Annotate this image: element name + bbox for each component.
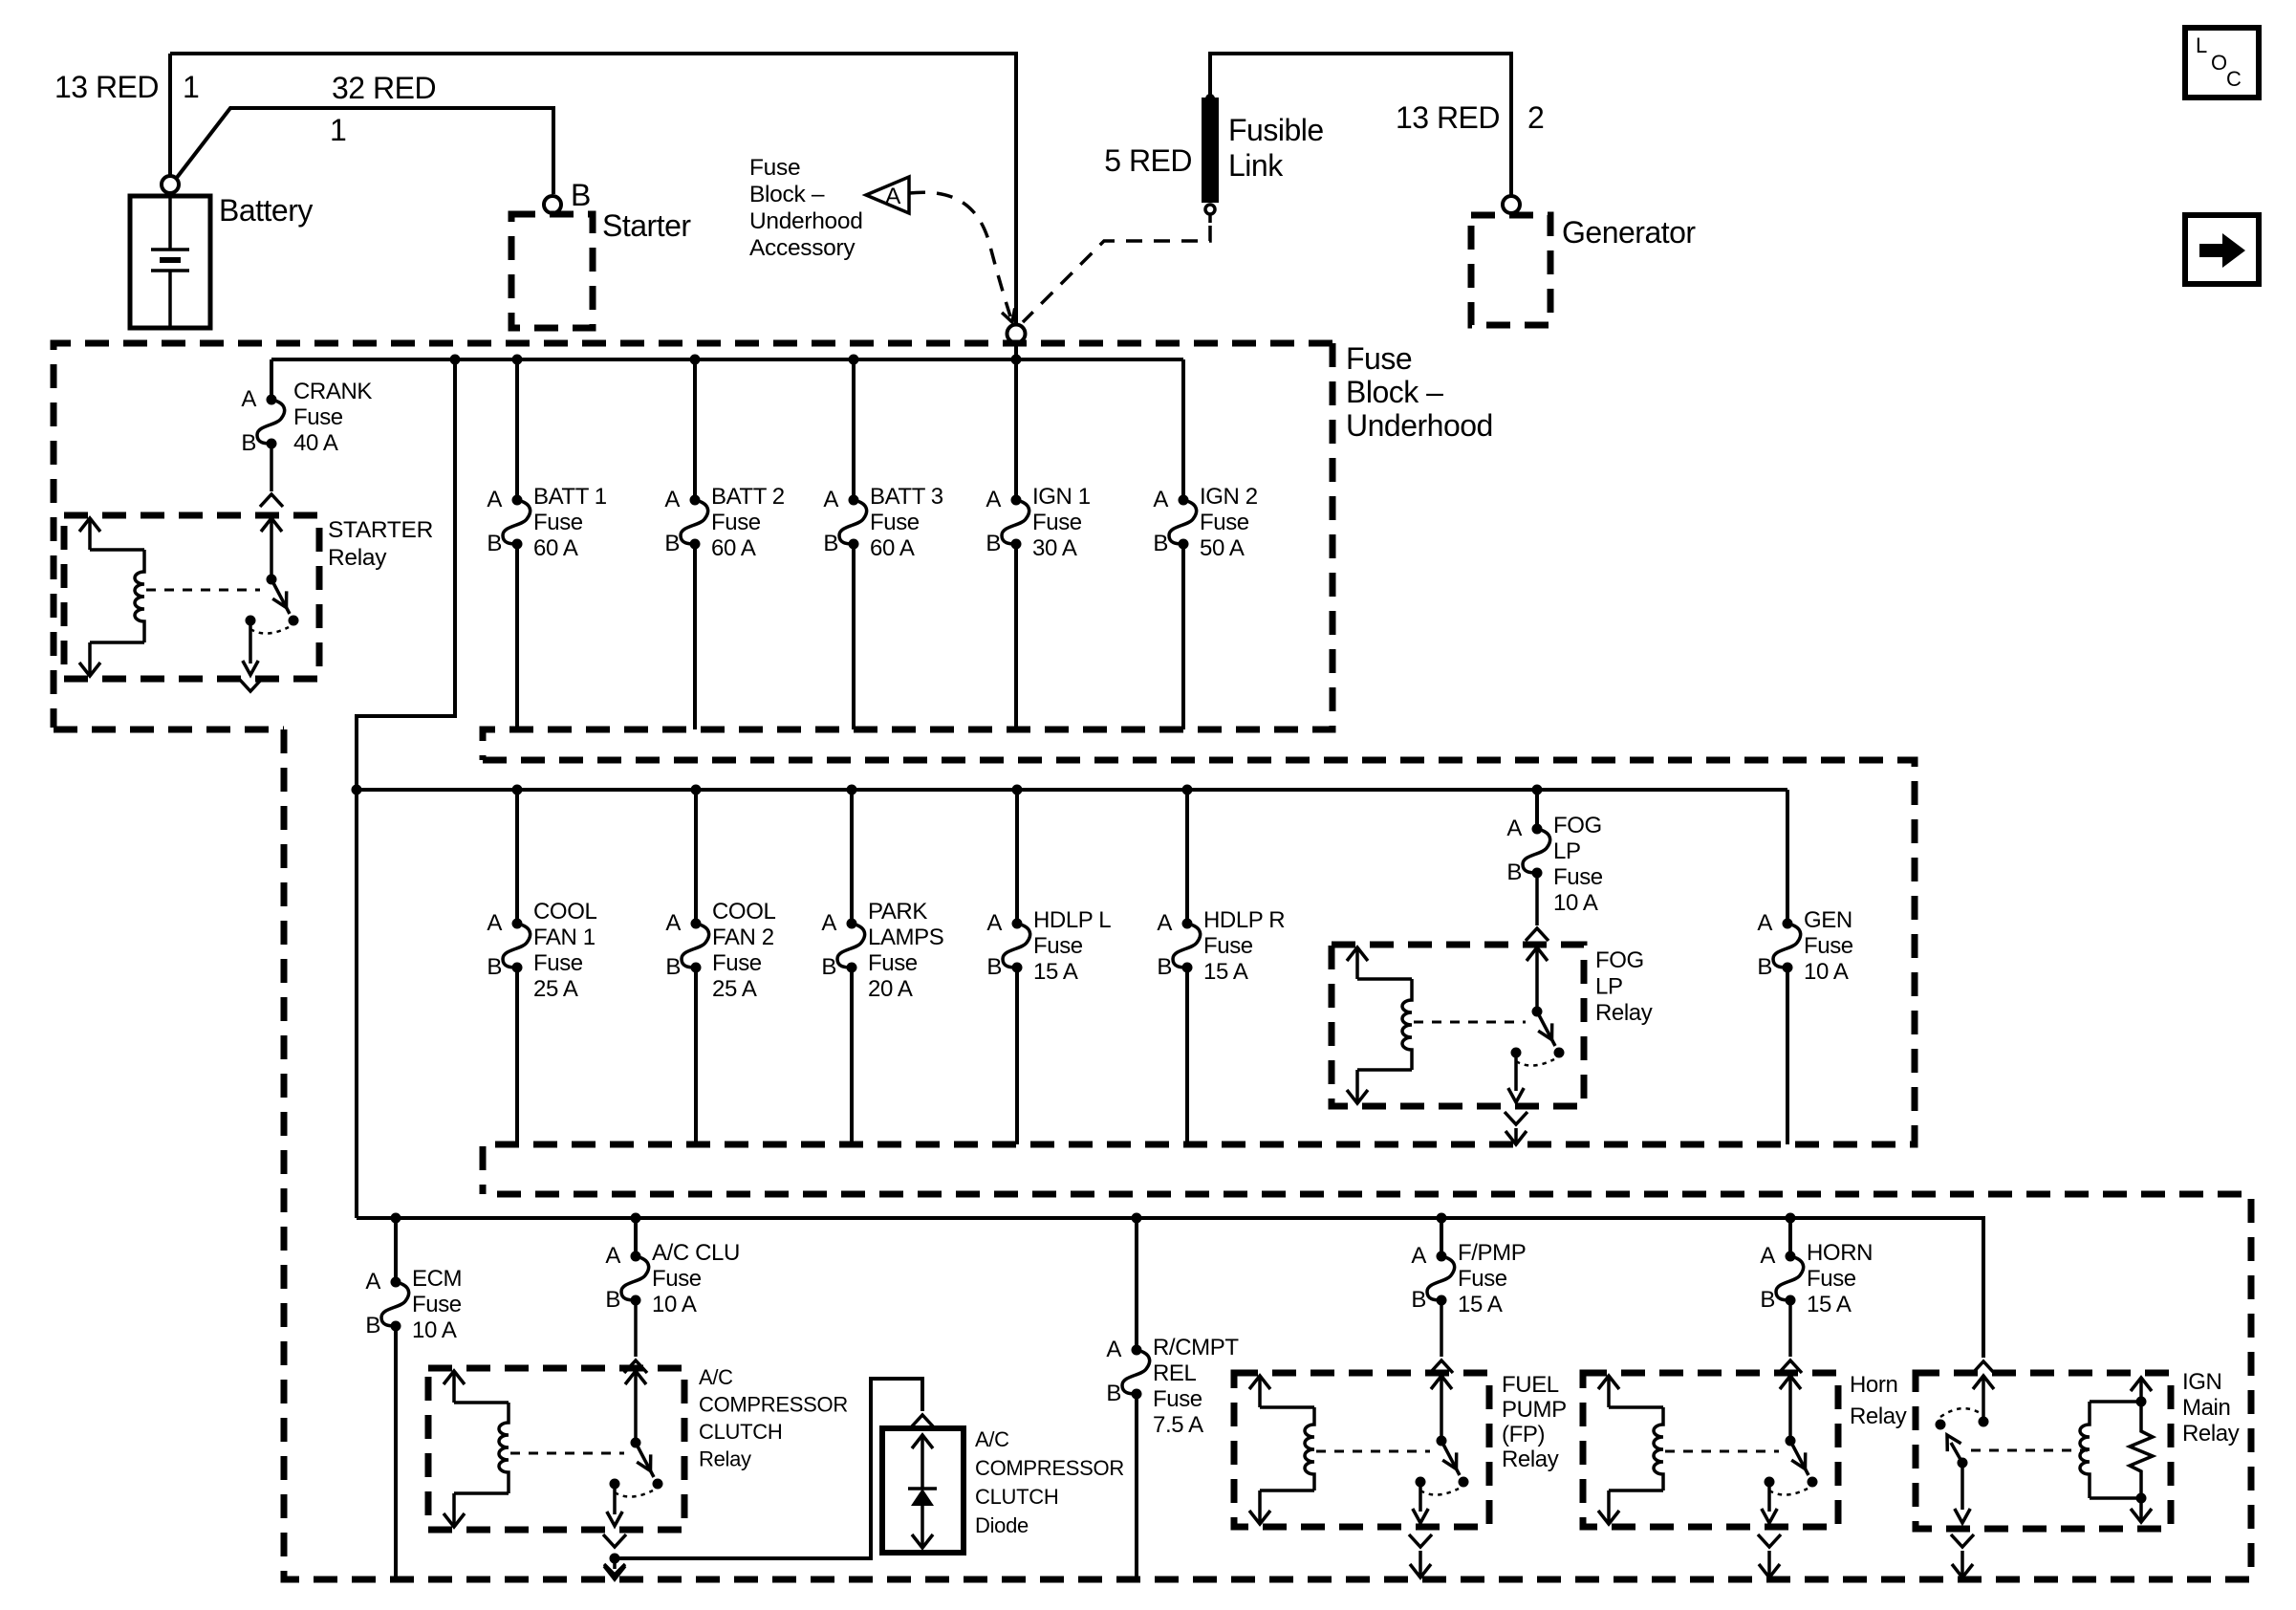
node junction row3 bus at A/C CLU <box>631 1213 641 1224</box>
pin labels IGN 1 fuse <box>986 487 1001 556</box>
fuse BATT 3 60 A <box>839 495 867 550</box>
svg-text:PUMP: PUMP <box>1502 1397 1567 1423</box>
relay FUEL PUMP (FP) coil <box>1249 1376 1314 1524</box>
fuse R/CMPT REL 7.5 A <box>1122 1345 1150 1400</box>
fuse BATT 1 60 A <box>503 495 531 550</box>
svg-text:B: B <box>1506 859 1522 885</box>
wire row-1 feed drop to row 2/3 <box>357 359 455 1218</box>
pin labels GEN fuse <box>1757 910 1772 980</box>
node junction row1-feed <box>450 355 461 365</box>
relay IGN Main coil <box>2080 1378 2152 1522</box>
node junction row2 bus at COOL FAN 1 <box>512 785 523 795</box>
fuse F/PMP 15 A <box>1427 1251 1455 1306</box>
pin labels HORN fuse <box>1760 1243 1775 1313</box>
relay Horn actuation link (dashed) <box>1665 1450 1779 1453</box>
connector chevron above IGN Main relay <box>1972 1361 1995 1374</box>
wire 32 RED from battery to starter <box>176 108 553 194</box>
svg-text:GEN: GEN <box>1804 907 1852 933</box>
node junction row2 bus at COOL FAN 2 <box>691 785 702 795</box>
label 32 RED <box>330 71 436 147</box>
node junction row2 bus at FOG LP <box>1532 785 1543 795</box>
svg-text:Fuse: Fuse <box>1458 1266 1507 1292</box>
svg-text:A: A <box>605 1243 620 1269</box>
pin labels BATT 1 fuse <box>487 487 502 556</box>
wire HDLP R fuse B to block edge <box>1185 968 1189 1144</box>
node junction row1 bus at BATT 2 <box>690 355 701 365</box>
node generator terminal <box>1503 196 1520 213</box>
connector chevron below FOG LP relay <box>1505 1112 1527 1124</box>
fuse A/C CLU 10 A <box>621 1251 649 1306</box>
relay A/C COMPRESSOR CLUTCH actuation link (dashed) <box>510 1452 624 1455</box>
wire HDLP L fuse feed <box>1015 790 1019 924</box>
svg-text:15 A: 15 A <box>1458 1292 1503 1317</box>
connector chevron below starter relay <box>239 679 262 691</box>
label HORN Fuse 15 A <box>1807 1240 1873 1317</box>
svg-text:32 RED: 32 RED <box>332 71 436 105</box>
connector chevron above Horn relay <box>1779 1360 1802 1373</box>
svg-text:25 A: 25 A <box>712 976 757 1002</box>
label COOL FAN 1 Fuse 25 A <box>533 899 596 1002</box>
wire Horn relay output to boundary <box>1759 1551 1780 1577</box>
label FUEL PUMP (FP) Relay <box>1502 1372 1567 1472</box>
svg-text:A: A <box>1106 1337 1121 1362</box>
label Fusible Link <box>1228 113 1324 183</box>
svg-text:IGN 2: IGN 2 <box>1200 484 1258 510</box>
svg-text:13 RED: 13 RED <box>1396 100 1500 135</box>
label HDLP L Fuse 15 A <box>1033 907 1111 985</box>
svg-text:7.5 A: 7.5 A <box>1153 1412 1203 1438</box>
wire FOG LP fuse B to relay <box>1535 873 1539 925</box>
relay FOG LP coil <box>1347 947 1412 1103</box>
svg-text:Relay: Relay <box>1595 1000 1653 1026</box>
label Fuse Block - Underhood <box>1346 341 1493 443</box>
svg-text:PARK: PARK <box>868 899 927 925</box>
svg-text:B: B <box>1757 954 1772 980</box>
svg-text:A: A <box>487 910 502 936</box>
wire BATT 1 fuse feed <box>515 359 519 500</box>
fuse FOG LP 10 A <box>1523 824 1550 879</box>
svg-text:L: L <box>2196 33 2207 57</box>
pin labels BATT 2 fuse <box>664 487 680 556</box>
label Horn Relay <box>1850 1372 1907 1429</box>
callout triangle A (Fuse Block - Underhood Accessory) <box>866 177 909 213</box>
fusible link node (top) <box>1205 94 1215 103</box>
label IGN 2 Fuse 50 A <box>1200 484 1258 561</box>
fuse HDLP R 15 A <box>1173 919 1201 973</box>
svg-text:LAMPS: LAMPS <box>868 925 943 950</box>
relay STARTER coil <box>79 518 144 676</box>
svg-text:IGN 1: IGN 1 <box>1032 484 1091 510</box>
wire R/CMPT REL fuse B to boundary <box>1135 1394 1138 1579</box>
svg-text:(FP): (FP) <box>1502 1422 1545 1447</box>
svg-text:10 A: 10 A <box>412 1317 457 1343</box>
pin labels PARK LAMPS fuse <box>821 910 836 980</box>
svg-text:Fuse: Fuse <box>533 950 583 976</box>
svg-text:BATT 1: BATT 1 <box>533 484 607 510</box>
wire GEN fuse B to block edge <box>1786 968 1789 1144</box>
wire ECM fuse B to boundary <box>394 1326 398 1579</box>
svg-text:Fuse: Fuse <box>533 510 583 535</box>
label R/CMPT REL Fuse 7.5 A <box>1153 1335 1239 1438</box>
label 13 RED (circuit 1) <box>54 70 199 104</box>
svg-text:Fuse: Fuse <box>711 510 761 535</box>
svg-text:B: B <box>1411 1287 1426 1313</box>
svg-text:COOL: COOL <box>533 899 596 925</box>
svg-text:40 A: 40 A <box>293 430 338 456</box>
node junction row3 bus at HORN <box>1786 1213 1796 1224</box>
wire FOG LP fuse feed <box>1535 790 1539 829</box>
relay Horn coil <box>1598 1376 1663 1524</box>
relay A/C COMPRESSOR CLUTCH switch <box>607 1371 663 1526</box>
svg-text:Fuse: Fuse <box>1346 341 1412 376</box>
label IGN 1 Fuse 30 A <box>1032 484 1091 561</box>
svg-text:15 A: 15 A <box>1033 959 1078 985</box>
outer dashed boundary (left and bottom) <box>284 729 2251 1579</box>
svg-text:A: A <box>986 910 1002 936</box>
relay A/C COMPRESSOR CLUTCH box <box>428 1368 684 1530</box>
wire A/C relay to diode <box>615 1379 922 1558</box>
wire fusible link top bus to generator <box>1210 54 1511 195</box>
connector chevron below A/C relay <box>603 1534 626 1547</box>
svg-text:Fuse: Fuse <box>1553 864 1603 890</box>
svg-text:Underhood: Underhood <box>749 208 863 234</box>
svg-text:FOG: FOG <box>1595 947 1644 973</box>
pin labels COOL FAN 1 fuse <box>487 910 502 980</box>
node junction row1 bus at BATT 3 <box>849 355 859 365</box>
label IGN Main Relay <box>2182 1369 2240 1447</box>
svg-text:50 A: 50 A <box>1200 535 1245 561</box>
svg-text:IGN: IGN <box>2182 1369 2221 1395</box>
fuse IGN 2 50 A <box>1169 495 1197 550</box>
fuse BATT 2 60 A <box>681 495 708 550</box>
label A/C COMPRESSOR CLUTCH Diode <box>975 1427 1124 1537</box>
label Battery <box>219 193 313 228</box>
fuse HDLP L 15 A <box>1003 919 1030 973</box>
callout label Fuse Block - Underhood Accessory <box>749 155 863 261</box>
svg-text:Relay: Relay <box>328 545 387 571</box>
svg-text:Relay: Relay <box>1502 1447 1559 1472</box>
svg-text:B: B <box>1106 1381 1121 1406</box>
callout dashed leader from fusible link to junction <box>1023 226 1210 322</box>
svg-text:Fuse: Fuse <box>1032 510 1082 535</box>
svg-text:B: B <box>241 430 256 456</box>
wire BATT 1 fuse B to block edge <box>515 544 519 729</box>
resistor in IGN Main relay <box>2130 1402 2153 1498</box>
node junction row3 bus at R/CMPT <box>1132 1213 1142 1224</box>
svg-text:B: B <box>571 178 591 212</box>
svg-text:A: A <box>986 487 1001 512</box>
connector chevron above A/C diode <box>911 1415 934 1427</box>
svg-text:COOL: COOL <box>712 899 775 925</box>
connector chevron above FOG LP relay <box>1526 928 1549 941</box>
wire IGN 2 fuse B to block edge <box>1181 544 1185 729</box>
svg-text:CRANK: CRANK <box>293 379 372 404</box>
node junction row2 bus at HDLP R <box>1182 785 1193 795</box>
svg-text:A: A <box>665 910 681 936</box>
wire CRANK fuse stub <box>270 359 273 400</box>
svg-text:A: A <box>1757 910 1772 936</box>
relay A/C COMPRESSOR CLUTCH coil <box>444 1371 509 1527</box>
relay IGN Main box <box>1916 1373 2171 1529</box>
pin labels F/PMP fuse <box>1411 1243 1426 1313</box>
relay FUEL PUMP (FP) box <box>1234 1373 1489 1527</box>
svg-text:B: B <box>605 1287 620 1313</box>
svg-text:A: A <box>821 910 836 936</box>
svg-text:Fuse: Fuse <box>868 950 918 976</box>
label BATT 3 Fuse 60 A <box>870 484 943 561</box>
wire BATT 2 fuse B to block edge <box>693 544 697 729</box>
svg-text:Fuse: Fuse <box>1807 1266 1856 1292</box>
svg-text:COMPRESSOR: COMPRESSOR <box>975 1456 1124 1480</box>
node junction at fuse block top <box>1007 325 1026 343</box>
wire F/PMP fuse B to relay <box>1440 1300 1443 1357</box>
wire junction circle to row-1 bus <box>1014 343 1018 359</box>
node junction below A/C relay <box>610 1554 620 1564</box>
pin labels A/C CLU fuse <box>605 1243 620 1313</box>
relay STARTER actuation link (dashed) <box>146 589 260 592</box>
fuse COOL FAN 1 25 A <box>503 919 531 973</box>
fuse GEN 10 A <box>1773 919 1801 973</box>
svg-text:B: B <box>1157 954 1172 980</box>
svg-text:5 RED: 5 RED <box>1104 143 1192 178</box>
svg-text:B: B <box>986 531 1001 556</box>
generator (dashed box) <box>1471 215 1550 325</box>
relay FUEL PUMP (FP) actuation link (dashed) <box>1316 1450 1430 1453</box>
svg-text:A: A <box>365 1269 380 1295</box>
svg-text:Relay: Relay <box>2182 1421 2240 1447</box>
wire HORN fuse feed <box>1788 1218 1792 1256</box>
svg-text:R/CMPT: R/CMPT <box>1153 1335 1239 1360</box>
svg-text:Fuse: Fuse <box>1203 933 1253 959</box>
svg-text:60 A: 60 A <box>533 535 578 561</box>
wire HORN fuse B to relay <box>1788 1300 1792 1357</box>
connector chevron above FUEL PUMP relay <box>1430 1360 1453 1373</box>
node battery positive terminal <box>162 176 179 193</box>
relay FOG LP box <box>1332 945 1584 1106</box>
svg-text:C: C <box>2226 67 2242 91</box>
svg-text:30 A: 30 A <box>1032 535 1077 561</box>
wire COOL FAN 1 fuse B to block edge <box>515 968 519 1144</box>
svg-text:A: A <box>1157 910 1172 936</box>
svg-text:A/C CLU: A/C CLU <box>652 1240 740 1266</box>
node starter B terminal <box>544 196 561 213</box>
fusible link bottom terminal <box>1205 205 1215 223</box>
svg-text:Horn: Horn <box>1850 1372 1897 1398</box>
svg-text:ECM: ECM <box>412 1266 462 1292</box>
label CRANK Fuse 40 A <box>293 379 372 456</box>
fuse block underhood (dashed box outline) <box>54 343 1332 760</box>
wire A/C relay output to boundary <box>604 1558 625 1579</box>
svg-text:1: 1 <box>183 70 199 104</box>
node junction row1 bus at IGN 1 <box>1011 355 1022 365</box>
fuse HORN 15 A <box>1776 1251 1804 1306</box>
svg-text:Block –: Block – <box>749 182 825 207</box>
svg-text:B: B <box>664 531 680 556</box>
svg-text:10 A: 10 A <box>1553 890 1598 916</box>
svg-text:STARTER: STARTER <box>328 517 433 543</box>
node junction row2 bus at PARK LAMPS <box>847 785 857 795</box>
svg-text:Battery: Battery <box>219 193 313 228</box>
svg-text:B: B <box>487 531 502 556</box>
svg-text:Accessory: Accessory <box>749 235 856 261</box>
starter (dashed box) <box>511 214 593 328</box>
node junction row2 bus at HDLP L <box>1012 785 1023 795</box>
svg-text:LP: LP <box>1553 838 1581 864</box>
svg-text:B: B <box>1760 1287 1775 1313</box>
connector chevron below Horn relay <box>1758 1534 1781 1547</box>
label FOG LP Relay <box>1595 947 1653 1026</box>
wire R/CMPT REL fuse feed <box>1135 1218 1138 1350</box>
svg-text:Fuse: Fuse <box>1200 510 1249 535</box>
svg-text:FAN 1: FAN 1 <box>533 925 596 950</box>
fuse IGN 1 30 A <box>1002 495 1029 550</box>
connector chevron below IGN Main relay <box>1951 1534 1974 1547</box>
connector chevron below FUEL PUMP relay <box>1409 1534 1432 1547</box>
callout dashed leader from triangle A to junction <box>909 192 1015 322</box>
fuse ECM 10 A <box>381 1277 409 1332</box>
fuse block row-2 (dashed box outline) <box>483 760 1915 1194</box>
pin labels ECM fuse <box>365 1269 380 1338</box>
pin labels COOL FAN 2 fuse <box>665 910 681 980</box>
relay Horn box <box>1583 1373 1838 1527</box>
label A/C COMPRESSOR CLUTCH Relay <box>699 1365 848 1471</box>
svg-text:FAN 2: FAN 2 <box>712 925 774 950</box>
svg-text:B: B <box>665 954 681 980</box>
wire PARK LAMPS fuse feed <box>850 790 854 924</box>
label BATT 1 Fuse 60 A <box>533 484 607 561</box>
wire row-2 bus <box>357 788 1787 792</box>
wire row-1 bus <box>271 358 1183 361</box>
svg-text:BATT 3: BATT 3 <box>870 484 943 510</box>
diode CR1 symbol <box>908 1435 937 1548</box>
pin labels R/CMPT REL fuse <box>1106 1337 1121 1406</box>
svg-text:A/C: A/C <box>699 1365 733 1389</box>
wire HDLP L fuse B to block edge <box>1015 968 1019 1144</box>
svg-text:B: B <box>487 954 502 980</box>
wire IGN 2 fuse feed <box>1181 359 1185 500</box>
wire battery drop <box>168 54 172 176</box>
label ECM Fuse 10 A <box>412 1266 462 1343</box>
svg-text:Fusible: Fusible <box>1228 113 1324 147</box>
svg-text:20 A: 20 A <box>868 976 913 1002</box>
pin labels CRANK fuse <box>241 386 256 456</box>
svg-text:Diode: Diode <box>975 1513 1029 1537</box>
fusible link F1 <box>1202 98 1219 203</box>
svg-text:10 A: 10 A <box>652 1292 697 1317</box>
label PARK LAMPS Fuse 20 A <box>868 899 943 1002</box>
svg-text:B: B <box>1153 531 1168 556</box>
node junction row2 feed <box>352 785 362 795</box>
svg-text:A: A <box>823 487 838 512</box>
svg-text:Fuse: Fuse <box>293 404 343 430</box>
svg-text:Fuse: Fuse <box>1033 933 1083 959</box>
relay FOG LP switch <box>1508 947 1565 1102</box>
svg-text:A: A <box>664 487 680 512</box>
svg-text:FUEL: FUEL <box>1502 1372 1559 1398</box>
svg-text:60 A: 60 A <box>711 535 756 561</box>
svg-text:Relay: Relay <box>1850 1403 1907 1429</box>
wire COOL FAN 2 fuse B to block edge <box>694 968 698 1144</box>
svg-text:BATT 2: BATT 2 <box>711 484 785 510</box>
label F/PMP Fuse 15 A <box>1458 1240 1526 1317</box>
battery B1 symbol <box>130 196 210 328</box>
svg-text:10 A: 10 A <box>1804 959 1849 985</box>
svg-text:Fuse: Fuse <box>412 1292 462 1317</box>
label 5 RED <box>1104 143 1192 178</box>
svg-text:A: A <box>1411 1243 1426 1269</box>
relay FOG LP actuation link (dashed) <box>1414 1021 1526 1024</box>
relay FUEL PUMP (FP) switch <box>1413 1376 1469 1523</box>
wire HDLP R fuse feed <box>1185 790 1189 924</box>
svg-text:Fuse: Fuse <box>652 1266 702 1292</box>
wire A/C CLU fuse feed <box>634 1218 638 1256</box>
svg-text:Fuse: Fuse <box>1804 933 1853 959</box>
label A/C CLU Fuse 10 A <box>652 1240 740 1317</box>
wire top bus from Battery to Fuse Block junction <box>170 54 1016 324</box>
wire FOG LP relay output to boundary <box>1505 1128 1527 1144</box>
wire COOL FAN 1 fuse feed <box>515 790 519 924</box>
svg-text:Main: Main <box>2182 1395 2230 1421</box>
wire F/PMP fuse feed <box>1440 1218 1443 1256</box>
relay STARTER box <box>64 515 319 679</box>
wire CRANK fuse B to starter relay <box>270 444 273 491</box>
relay IGN Main switch <box>1936 1376 1995 1523</box>
wire BATT 3 fuse B to block edge <box>852 544 856 729</box>
svg-text:Starter: Starter <box>602 208 691 243</box>
svg-text:CLUTCH: CLUTCH <box>975 1485 1058 1509</box>
fuse PARK LAMPS 20 A <box>837 919 865 973</box>
fuse CRANK 40 A <box>257 395 285 449</box>
label GEN Fuse 10 A <box>1804 907 1853 985</box>
label STARTER Relay <box>328 517 433 571</box>
label BATT 2 Fuse 60 A <box>711 484 785 561</box>
pin labels BATT 3 fuse <box>823 487 838 556</box>
wire ECM fuse feed <box>394 1218 398 1282</box>
svg-text:B: B <box>986 954 1002 980</box>
svg-text:Link: Link <box>1228 148 1284 183</box>
svg-text:A: A <box>1506 816 1522 841</box>
next-page arrow box <box>2185 215 2259 284</box>
wire IGN 1 fuse B to block edge <box>1014 544 1018 729</box>
node junction row1 bus at BATT 1 <box>512 355 523 365</box>
svg-text:F/PMP: F/PMP <box>1458 1240 1526 1266</box>
wire PARK LAMPS fuse B to block edge <box>850 968 854 1144</box>
wire A/C CLU fuse B to relay <box>634 1300 638 1357</box>
fuse COOL FAN 2 25 A <box>682 919 709 973</box>
diode A/C COMPRESSOR CLUTCH box <box>882 1428 964 1553</box>
svg-text:B: B <box>365 1313 380 1338</box>
svg-text:Block –: Block – <box>1346 375 1443 409</box>
svg-text:13 RED: 13 RED <box>54 70 159 104</box>
svg-text:A: A <box>1760 1243 1775 1269</box>
svg-text:B: B <box>823 531 838 556</box>
svg-text:HDLP R: HDLP R <box>1203 907 1285 933</box>
svg-text:Underhood: Underhood <box>1346 408 1493 443</box>
label 13 RED (circuit 2) <box>1396 100 1544 135</box>
svg-text:A: A <box>241 386 256 412</box>
node junction row3 bus at F/PMP <box>1437 1213 1447 1224</box>
pin labels HDLP L fuse <box>986 910 1002 980</box>
svg-text:CLUTCH: CLUTCH <box>699 1420 782 1444</box>
wire GEN fuse feed <box>1786 790 1789 924</box>
label FOG LP Fuse 10 A <box>1553 813 1603 916</box>
relay Horn switch <box>1762 1376 1818 1523</box>
svg-text:Relay: Relay <box>699 1447 751 1471</box>
svg-text:A: A <box>1153 487 1168 512</box>
svg-text:A/C: A/C <box>975 1427 1009 1451</box>
pin labels IGN 2 fuse <box>1153 487 1168 556</box>
label Starter <box>602 208 691 243</box>
